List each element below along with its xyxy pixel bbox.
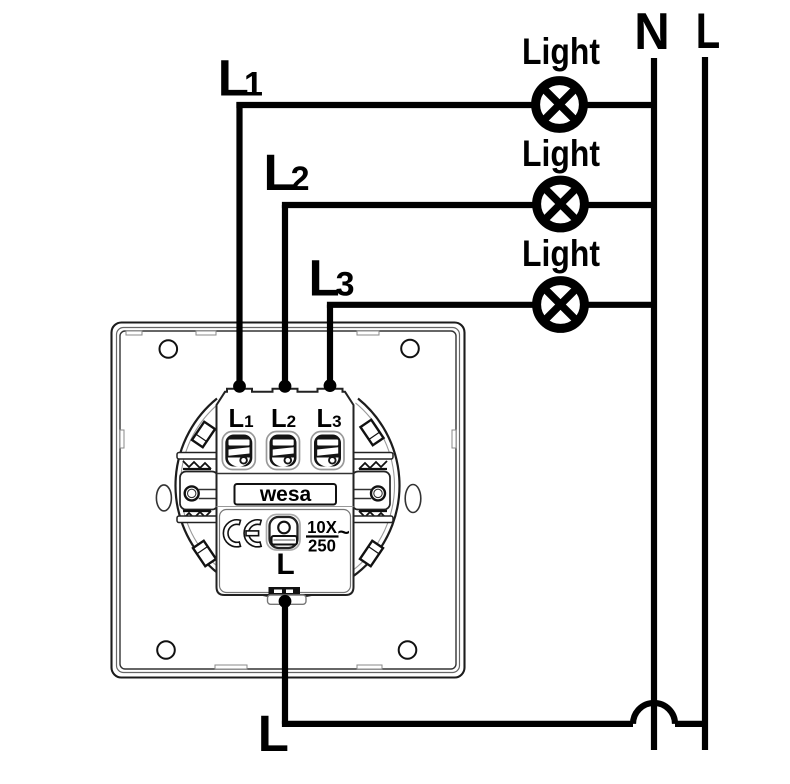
svg-text:wesa: wesa xyxy=(259,483,312,506)
svg-text:L: L xyxy=(276,548,294,581)
svg-text:Light: Light xyxy=(522,31,600,73)
svg-text:~: ~ xyxy=(338,522,350,545)
svg-text:L: L xyxy=(258,705,289,762)
svg-text:L: L xyxy=(696,3,720,59)
svg-text:Light: Light xyxy=(522,233,600,275)
svg-text:Light: Light xyxy=(522,133,600,175)
svg-text:N: N xyxy=(634,2,669,61)
svg-text:250: 250 xyxy=(308,535,336,556)
